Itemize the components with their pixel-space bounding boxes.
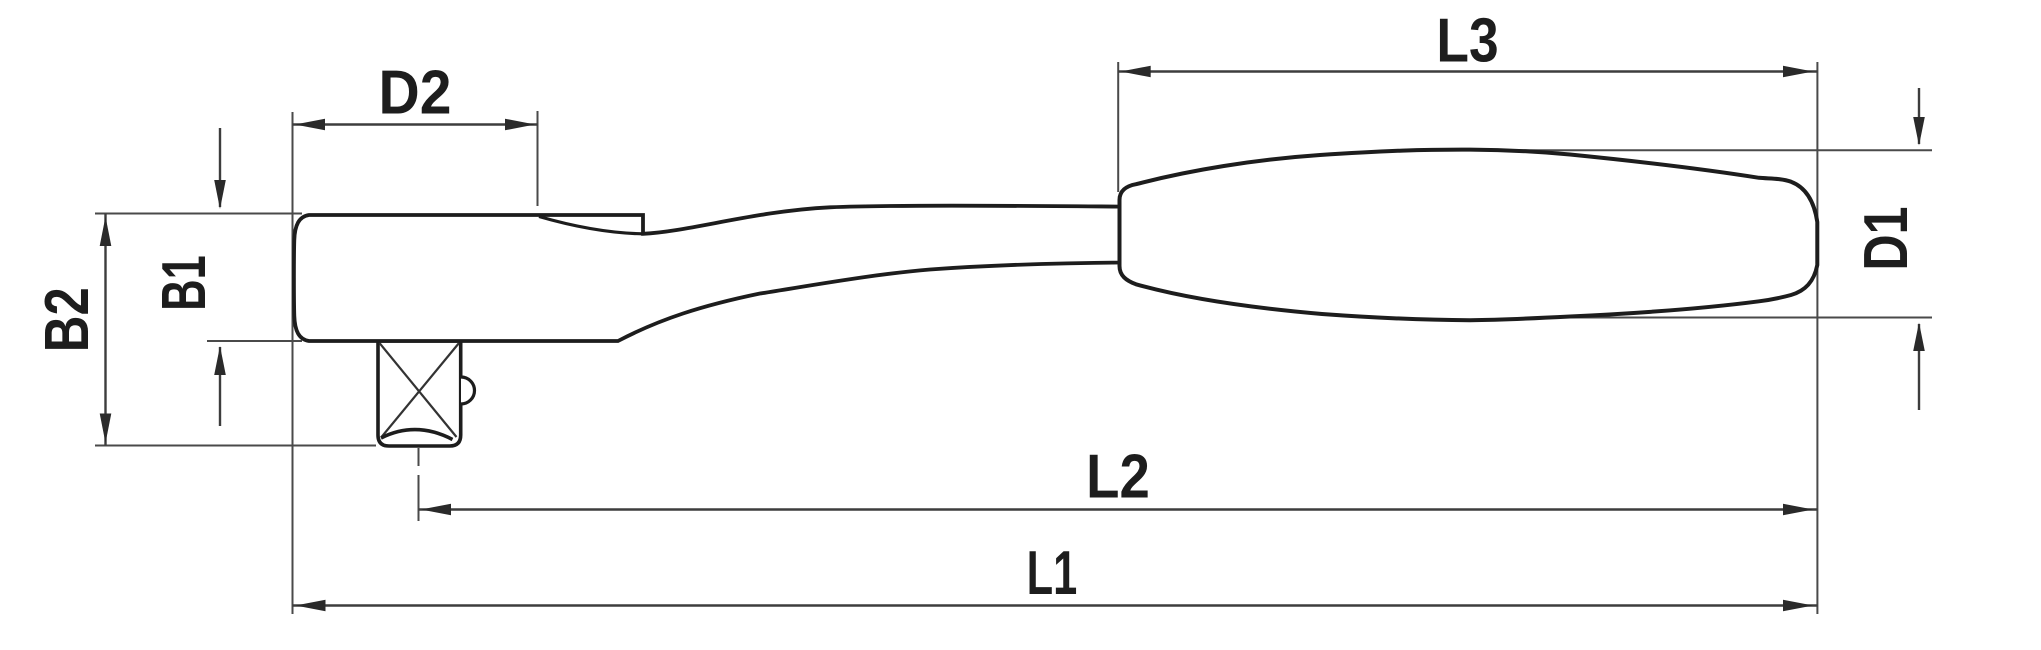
dimension line L3 y=71.5 (1118, 70, 1817, 72)
extension line bottom of head y=341 (B1) (207, 340, 302, 342)
dimension leader D1 bottom x=1919 (1918, 324, 1920, 410)
arrow D1 top (points down) (1913, 117, 1925, 146)
dimension line L1 y=605.5 (293, 604, 1818, 606)
X diagonal 1 (380, 343, 457, 437)
arrow L1 left (296, 600, 326, 612)
svg-text:L1: L1 (1027, 540, 1078, 608)
arrow L1 right (1783, 600, 1813, 612)
bottom arc of square drive (381, 430, 453, 440)
detent ball bump (461, 377, 475, 404)
extension line L3 left x=1118 (1117, 62, 1119, 192)
extension line D1 bottom y=317.5 (1460, 317, 1932, 319)
ratchet head and neck silhouette (294, 206, 1122, 341)
arrow B2 top (100, 217, 112, 247)
extension line D1 top y=150.2 (1470, 149, 1932, 151)
svg-text:D2: D2 (379, 57, 452, 127)
arrow L2 left (421, 504, 451, 516)
svg-text:D1: D1 (1851, 206, 1920, 270)
svg-text:L2: L2 (1086, 442, 1150, 511)
arrow D2 right (505, 119, 535, 131)
arrow B1 top (points down) (214, 180, 226, 209)
X diagonal 2 (382, 343, 460, 437)
dimension line L2 y=509.5 (419, 508, 1818, 510)
svg-text:B1: B1 (151, 255, 219, 310)
extension line left (D2/L1) x=292.5 (292, 112, 294, 614)
extension line top of head y=213.5 (B1/B2) (95, 213, 302, 215)
square drive body (378, 341, 475, 446)
dimension leader D1 top x=1919 (1918, 88, 1920, 144)
arrow B1 bottom (points up) (214, 346, 226, 375)
centerline below square drive x=418.5 (418, 448, 420, 466)
arrow L3 right (1783, 66, 1813, 78)
svg-text:L3: L3 (1436, 7, 1498, 76)
dimension line B2 x=105.5 (104, 214, 106, 446)
arrow D2 left (295, 119, 325, 131)
extension line bottom of square y=445.5 (B2) (95, 445, 376, 447)
arrow L2 right (1783, 504, 1813, 516)
ratchet cover notch arc (539, 217, 643, 234)
dimension leader B1 top x=220 (219, 128, 221, 207)
arrow L3 left (1121, 66, 1151, 78)
extension line D2 right x=537.5 (537, 111, 539, 206)
dimension line D2 y=124.5 (293, 123, 538, 125)
dimension leader B1 bottom x=220 (219, 347, 221, 426)
arrow D1 bottom (points up) (1913, 323, 1925, 352)
extension line right (L3/L2/L1) x=1817.4 (1816, 62, 1818, 614)
arrow B2 bottom (100, 414, 112, 444)
svg-text:B2: B2 (33, 287, 102, 352)
handle grip (1120, 150, 1818, 321)
